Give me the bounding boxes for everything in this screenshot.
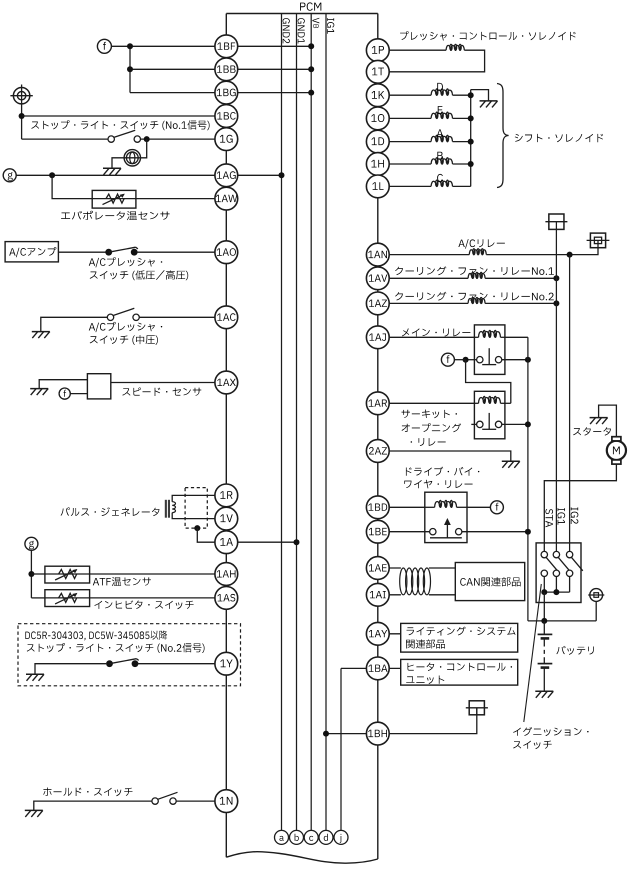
- junction 1BB/VB: [308, 66, 314, 72]
- shift solenoid coil A: [431, 129, 452, 141]
- evaporator temp sensor element: [92, 194, 136, 205]
- wire inhibitor to 1AS: [90, 597, 227, 599]
- inhibitor switch label: [94, 600, 193, 609]
- junction lamp tap: [144, 136, 150, 142]
- wire ground to switch No.2: [35, 664, 106, 675]
- heater control box: [401, 659, 518, 685]
- wire to 1BC: [22, 115, 227, 117]
- bus VB (net c): [310, 14, 312, 831]
- pin 1AE: [366, 557, 389, 580]
- bus net j vertical: [340, 668, 342, 830]
- battery cell 2: [538, 661, 553, 668]
- bus IG1 (net d): [325, 14, 327, 831]
- wire f branch vertical: [129, 46, 131, 92]
- wire to shift solenoid B: [378, 163, 431, 165]
- CAN twisted pair: [400, 568, 431, 595]
- wire 1AZ to coil: [378, 302, 468, 304]
- lighting system label: [406, 627, 515, 649]
- pin 1V: [215, 507, 238, 530]
- node j: [334, 830, 348, 844]
- bus VB label: [312, 18, 319, 28]
- node f (DBW relay): [490, 501, 503, 514]
- junction solenoid B: [468, 161, 474, 167]
- inhibitor switch element: [45, 593, 90, 604]
- wire starter to ground: [599, 405, 617, 437]
- cooling fan relay No.1 label: [395, 266, 554, 275]
- pin 1AJ: [366, 326, 389, 349]
- ignition switch label: [513, 727, 588, 749]
- shift solenoid label: [515, 134, 603, 142]
- wire 1BH to fuse: [378, 708, 477, 734]
- stop light switch No.2 dashed box: [18, 624, 241, 686]
- pin 1A: [215, 531, 238, 554]
- pulse generator label: [61, 507, 160, 516]
- A/C pressure switch mid label: [89, 322, 162, 345]
- CO relay contact left stub: [471, 423, 476, 425]
- IG1 feed line: [555, 229, 557, 551]
- junction 1AZ/IG1: [553, 300, 559, 306]
- junction f/1BF: [127, 43, 133, 49]
- pin 1BA: [366, 657, 389, 680]
- stop light switch label: [31, 120, 209, 130]
- wire IG1 bus to 1BH: [326, 733, 378, 735]
- pin 1Y: [215, 652, 238, 675]
- wire ATF to 1AH: [90, 573, 227, 575]
- junction g branch: [49, 172, 55, 178]
- wire 1AG to GND2 bus: [226, 174, 281, 176]
- wire to stop light switch: [22, 138, 108, 140]
- junction solenoid D: [468, 92, 474, 98]
- wire main relay coil to 528 line: [505, 336, 528, 338]
- junction 1BF/VB: [308, 43, 314, 49]
- pin 1AX: [215, 371, 238, 394]
- pressure control solenoid label: [400, 31, 576, 40]
- ignition switch box: [536, 543, 581, 603]
- wire evap sensor to 1AW: [136, 198, 226, 200]
- circuit opening relay contact: [477, 413, 502, 429]
- wire battery top: [543, 621, 545, 635]
- circuit opening relay box: [474, 391, 505, 439]
- ATF sensor label: [93, 577, 151, 586]
- pin 1AY: [366, 622, 389, 645]
- wire pulse gen top lead: [172, 495, 226, 501]
- wire main relay contact right: [502, 359, 528, 361]
- PCM enclosure left edge: [225, 14, 227, 858]
- drive-by-wire relay coil: [425, 500, 467, 507]
- junction 1BC tap: [19, 113, 25, 119]
- pin 1BE: [366, 520, 389, 543]
- ignition switch pole 1 bottom terminal: [541, 570, 547, 592]
- pin 1O: [366, 107, 389, 130]
- ATF temp sensor box: [45, 566, 90, 583]
- PCM enclosure right edge: [377, 14, 379, 860]
- pin 1AC: [215, 306, 238, 329]
- ground (mid switch): [32, 332, 50, 339]
- pin 1T: [366, 60, 389, 83]
- bus GND1 (net b): [296, 14, 298, 831]
- wire to shift solenoid D: [378, 94, 431, 96]
- lighting system box: [401, 623, 518, 652]
- wire main relay to CO relay coil: [466, 360, 511, 404]
- wire to shift solenoid C: [378, 185, 431, 187]
- junction ignition bus 2: [553, 589, 559, 595]
- node c: [304, 830, 318, 844]
- shift solenoid coil C: [431, 174, 452, 187]
- model note label: [25, 631, 167, 641]
- wire to shift solenoid A: [378, 141, 431, 143]
- PCM enclosure wavy break bottom: [226, 852, 377, 863]
- wire shield to 1A: [197, 528, 226, 542]
- junction CO relay/528: [525, 421, 531, 427]
- wire 1BA to net j: [341, 667, 367, 669]
- pin 1BF: [215, 35, 238, 58]
- pin 1AR: [366, 392, 389, 415]
- wire switch to 1AO: [137, 251, 227, 253]
- cooling fan relay No.2 label: [395, 292, 554, 301]
- shift solenoid brace: [497, 84, 509, 188]
- wire solenoid E to bus: [453, 117, 471, 119]
- cooling fan relay No.2 coil: [468, 298, 485, 304]
- wire solenoid C to bus: [453, 185, 471, 187]
- main relay box: [474, 325, 505, 375]
- ignition switch pole 2 top terminal: [553, 551, 569, 570]
- bus IG1 label: [327, 18, 334, 34]
- junction shield: [194, 525, 200, 531]
- wire ground to hold switch: [34, 801, 152, 810]
- node f (speed sensor): [59, 388, 70, 399]
- ignition switch common bus: [544, 591, 569, 593]
- wire 1P to coil: [378, 49, 446, 51]
- A/C pressure switch lo/hi label: [89, 257, 188, 280]
- node d: [319, 830, 333, 844]
- wire g down to evap sensor: [52, 175, 92, 198]
- junction main relay/528: [525, 357, 531, 363]
- node g (ATF): [25, 537, 38, 550]
- wire body ground down: [21, 104, 23, 139]
- battery positive terminal symbol: [588, 589, 604, 602]
- wire DBW coil to f: [467, 506, 490, 508]
- evaporator sensor label: [61, 211, 170, 220]
- junction main relay/f: [463, 357, 469, 363]
- bus GND2 label: [283, 18, 290, 43]
- junction 1BB branch: [127, 66, 133, 72]
- wire to ATF box: [31, 573, 45, 575]
- wire solenoid bus to ground: [471, 90, 489, 101]
- pin 1G: [215, 128, 238, 151]
- pin 1R: [215, 484, 238, 507]
- bus GND1 label: [298, 18, 305, 43]
- drive-by-wire relay box: [425, 492, 467, 542]
- wire coil to IG1 line: [485, 302, 556, 304]
- pin 1AH: [215, 563, 238, 586]
- cooling fan relay No.1 coil: [468, 272, 485, 278]
- inhibitor switch box: [45, 590, 90, 607]
- line 528 vertical: [527, 337, 529, 621]
- junction 1BG/VB: [308, 90, 314, 96]
- wire 1BG to VB bus: [226, 92, 311, 94]
- stop lamp: [124, 150, 140, 166]
- wire solenoid A to bus: [453, 141, 471, 143]
- wire 1AV to coil: [378, 277, 468, 279]
- circuit opening relay label: [402, 410, 462, 446]
- node b: [290, 830, 304, 844]
- wire speed sensor to 1AX: [111, 382, 227, 384]
- wire to shift solenoid E: [378, 117, 431, 119]
- junction 1A/GND1: [294, 539, 300, 545]
- A/C relay coil: [469, 249, 486, 255]
- pin 1AW: [215, 187, 238, 210]
- wire 1BA to heater box: [378, 667, 401, 669]
- A/C amp label: [9, 247, 56, 257]
- A/C pressure switch (mid) open: [107, 308, 139, 320]
- wire solenoid D to bus: [453, 94, 471, 96]
- ignition leader line: [524, 584, 542, 722]
- IG2 label (ignition): [571, 507, 579, 524]
- wire hold switch to 1N: [176, 800, 226, 802]
- speed sensor label: [122, 388, 201, 396]
- wire g to 1AG: [16, 174, 226, 176]
- wire switch No.2 to 1Y: [137, 663, 226, 665]
- node a: [275, 830, 289, 844]
- speed sensor box: [87, 374, 110, 399]
- pin 1AI: [366, 583, 389, 606]
- wire to inhibitor box: [31, 597, 45, 599]
- junction 1AG/GND2: [279, 172, 285, 178]
- circuit opening relay coil: [474, 396, 505, 403]
- wire 2AZ to ground: [378, 451, 511, 461]
- wire 1AI to twisted pair: [378, 594, 401, 596]
- junction ATF branch: [28, 571, 34, 577]
- junction solenoid E: [468, 115, 474, 121]
- ignition switch pole 3 bottom terminal: [566, 570, 572, 592]
- pin 1AS: [215, 587, 238, 610]
- wire mid switch to 1AC: [139, 316, 226, 318]
- wire to 1BB: [130, 68, 226, 70]
- node g (left): [3, 169, 16, 182]
- wire 1A to GND1 bus: [226, 541, 296, 543]
- hold switch open: [152, 792, 178, 804]
- STA label: [545, 509, 553, 527]
- wire 1BB to VB bus: [226, 68, 311, 70]
- wire pulse gen bottom lead: [172, 513, 226, 519]
- wire twisted pair to CAN box bottom: [429, 594, 455, 596]
- shift solenoid coil D: [431, 83, 452, 95]
- wire solenoid B to bus: [453, 163, 471, 165]
- shift solenoid common bus: [470, 90, 472, 187]
- node f (main relay): [441, 353, 454, 366]
- ignition switch pole 3 top terminal: [566, 551, 582, 570]
- wire battery to ground: [543, 668, 545, 692]
- pressure control solenoid coil L-PC: [446, 44, 464, 50]
- pin 1AG: [215, 164, 238, 187]
- CAN parts box: [455, 563, 524, 601]
- ground (hold switch): [25, 810, 43, 817]
- ground (stop lamp): [103, 168, 121, 175]
- heater control label: [406, 663, 512, 684]
- junction battery top: [541, 618, 547, 624]
- hold switch label: [43, 788, 132, 797]
- junction 1AV/IG1: [553, 275, 559, 281]
- pin 1N: [215, 790, 238, 813]
- stop light switch S1 (No.1): [108, 130, 141, 142]
- wire ignition to battery: [543, 592, 545, 621]
- junction 1BH/IG1 bus: [323, 731, 329, 737]
- battery dashed middle: [543, 638, 545, 660]
- fuse (1BH): [466, 701, 488, 715]
- wire ground to speed sensor: [39, 380, 87, 389]
- junction 1AN/IG2: [567, 252, 573, 258]
- wire ground to mid switch: [41, 317, 108, 331]
- wire CO coil to corner: [505, 402, 511, 404]
- battery label: [556, 646, 593, 655]
- pulse generator core: [165, 500, 170, 518]
- starter motor M: [607, 437, 626, 464]
- pulse generator coil: [172, 502, 175, 513]
- pin 1D: [366, 130, 389, 153]
- pin 1AV: [366, 267, 389, 290]
- evaporator temp sensor box: [92, 190, 136, 208]
- battery cell 1: [538, 634, 553, 638]
- ground (shift solenoids): [480, 101, 498, 108]
- shift solenoid coil E: [431, 106, 452, 118]
- wire A/C amp to switch: [58, 251, 106, 253]
- ground (switch No.2): [26, 674, 44, 681]
- shift solenoid coil B: [431, 152, 452, 164]
- wire 1AJ to main relay: [378, 336, 475, 338]
- body ground symbol (stop light): [10, 85, 32, 105]
- starter label: [573, 427, 611, 435]
- wire positive terminal down: [595, 601, 597, 621]
- wire f to speed sensor: [70, 393, 87, 395]
- wire to 1BG: [130, 92, 226, 94]
- junction ignition bus 1: [541, 589, 547, 595]
- pin 1BG: [215, 81, 238, 104]
- A/C amp box: [5, 242, 58, 262]
- pin 1BD: [366, 496, 389, 519]
- ground (speed sensor): [30, 389, 48, 396]
- node f (top left): [97, 39, 111, 53]
- pin 1AZ: [366, 292, 389, 315]
- ignition switch pole 1 top terminal: [541, 551, 557, 570]
- wire g down: [30, 550, 32, 598]
- drive-by-wire relay label: [404, 467, 479, 489]
- main relay label: [402, 328, 470, 336]
- fuse (A/C relay): [587, 233, 610, 248]
- wire DBW contact to 528 line: [462, 531, 528, 533]
- drive-by-wire relay contact: [430, 518, 462, 538]
- main relay coil: [474, 330, 505, 337]
- IG2 feed line: [569, 255, 571, 552]
- wire 1BF to VB bus: [226, 45, 311, 47]
- A/C pressure switch (lo/hi) closed: [105, 247, 138, 255]
- PCM label: [300, 2, 321, 10]
- junction 1BE/528: [525, 529, 531, 535]
- wire 1AR to CO relay: [378, 402, 475, 404]
- stop light switch No.2 closed: [106, 659, 139, 667]
- pulse generator shield (dashed): [185, 488, 207, 528]
- fuse (IG1): [545, 214, 567, 229]
- wire 1BE to DBW contact: [378, 531, 430, 533]
- wire CO relay contact right: [502, 423, 528, 425]
- ground (starter): [590, 418, 608, 425]
- wire 1AN to coil: [378, 254, 470, 256]
- wire starter to STA: [544, 464, 616, 551]
- wire 1BD to DBW relay: [378, 506, 425, 508]
- bus GND2 (net a): [281, 14, 283, 831]
- wire lamp drop: [112, 139, 147, 168]
- pin 1AO: [215, 241, 238, 264]
- ground (battery): [535, 691, 553, 698]
- wire twisted pair to CAN box top: [429, 567, 455, 569]
- pin 1BH: [366, 722, 389, 745]
- pin 1K: [366, 84, 389, 107]
- ignition switch pole 2 bottom terminal: [553, 570, 559, 592]
- wire main relay contact left: [466, 359, 477, 361]
- pin 1BB: [215, 58, 238, 81]
- wire coil to fuse2: [486, 240, 598, 254]
- wire 1AY to lighting box: [378, 633, 401, 635]
- pin 1L: [366, 175, 389, 198]
- PCM enclosure top edge: [226, 13, 377, 15]
- pin 1H: [366, 153, 389, 176]
- wire coil to 1T loop: [378, 50, 485, 72]
- ground (2AZ): [502, 461, 520, 468]
- CAN parts label: [460, 577, 520, 586]
- main relay contact: [477, 348, 502, 364]
- wire 1AE to twisted pair: [378, 567, 401, 569]
- pin 2AZ: [366, 440, 389, 463]
- wire switch to 1G: [141, 138, 227, 140]
- pin 1AN: [366, 243, 389, 266]
- wire f to junction: [454, 359, 465, 361]
- ATF temp sensor element: [45, 569, 90, 580]
- stop light switch No.2 label: [27, 643, 205, 653]
- IG1 label (ignition): [557, 508, 565, 525]
- junction solenoid A: [468, 139, 474, 145]
- pin 1BC: [215, 105, 238, 128]
- wire coil to IG1 line: [485, 277, 556, 279]
- wire f to 1BF: [111, 45, 226, 47]
- pin 1P: [366, 39, 389, 62]
- wire 528 line to battery: [528, 620, 596, 622]
- A/C relay label: [458, 239, 504, 248]
